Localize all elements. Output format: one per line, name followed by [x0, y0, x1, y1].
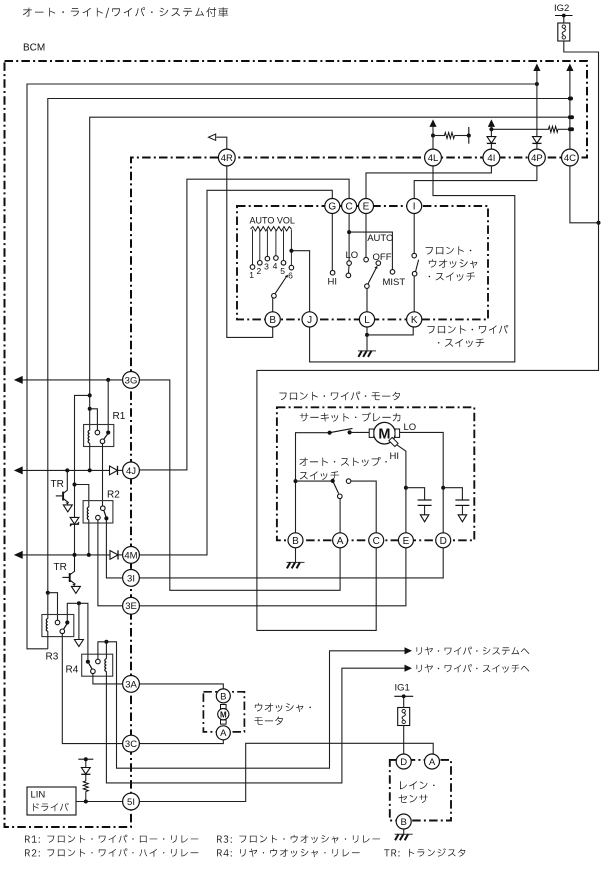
svg-text:C: C [345, 202, 352, 213]
arrow to rear wiper system [405, 647, 413, 654]
pin 4P [529, 149, 546, 166]
wire 4P internal [536, 71, 538, 150]
wire 4L to switch J [310, 166, 515, 362]
arrow to rear wiper switch [405, 665, 413, 672]
pin motor A [333, 533, 348, 548]
junction R2 coil feed [73, 483, 77, 487]
volume arm [272, 275, 288, 312]
svg-text:HI: HI [390, 451, 400, 462]
resistor AUTO VOL ladder [251, 227, 292, 231]
IG1 label [395, 683, 410, 694]
wire C to MIST contact [349, 232, 392, 270]
label TR [51, 479, 64, 490]
svg-text:A: A [337, 536, 344, 547]
junction R4 coil top [104, 640, 108, 644]
tap numbers [249, 261, 293, 281]
wire capacitor D branch [443, 488, 462, 500]
arrow 4C up [566, 64, 573, 72]
junction zener/4M [73, 553, 77, 557]
pin 4I [483, 149, 500, 166]
junction D capacitor [441, 486, 445, 490]
svg-text:3C: 3C [125, 739, 137, 750]
svg-text:L: L [364, 315, 370, 326]
wire 4I internal [490, 127, 492, 150]
wire K to ground [367, 327, 413, 335]
junction L2 branch [46, 591, 50, 595]
label circuit breaker [300, 412, 401, 422]
diode 4M [110, 550, 118, 559]
relay R3 contact [55, 620, 69, 633]
svg-text:3E: 3E [125, 601, 137, 612]
label LIN [31, 790, 69, 812]
label HI motor [390, 451, 400, 462]
svg-text:HI: HI [328, 276, 338, 287]
label R2 [107, 490, 120, 501]
wire 3C to washer A [140, 740, 224, 744]
motor M [369, 422, 399, 446]
svg-text:J: J [307, 315, 312, 326]
label MIST [383, 277, 406, 288]
wire 4C internal [569, 71, 571, 150]
junction IG2/4C [597, 221, 601, 225]
relay R4 contact [86, 659, 100, 673]
wire R3 coil bottom [47, 631, 49, 649]
pin J [302, 312, 317, 327]
wire 3G to motor A [140, 380, 341, 590]
svg-text:MIST: MIST [383, 277, 406, 288]
junction 4C/res [568, 127, 572, 131]
wire IG2 to right margin [564, 41, 599, 223]
pin 3E [123, 597, 140, 614]
wire R1 contact to 3G [107, 380, 109, 430]
ground rain sensor [395, 834, 413, 840]
wire motor HI to E [397, 445, 406, 533]
wire 4P to switch I [414, 166, 537, 199]
wire washer switch I [413, 214, 415, 254]
relay R2 contact [96, 506, 109, 521]
relay R4 coil [105, 659, 107, 672]
svg-text:6: 6 [288, 271, 293, 281]
contact HI [330, 270, 335, 275]
junction TR1 collector [65, 468, 69, 472]
pin I [407, 199, 422, 214]
svg-text:IG2: IG2 [554, 3, 569, 14]
svg-text:AUTO VOL: AUTO VOL [250, 216, 295, 226]
svg-text:4R: 4R [221, 153, 233, 164]
svg-text:M: M [220, 710, 227, 719]
label rear wiper system [417, 647, 530, 655]
relay R3 coil [46, 619, 48, 631]
svg-text:LO: LO [404, 422, 417, 433]
wire 4M to switch G [140, 190, 333, 555]
svg-text:B: B [220, 691, 226, 702]
wire R2 nc to 3E [98, 520, 123, 606]
svg-text:4P: 4P [531, 153, 543, 164]
label rear wiper switch [417, 664, 530, 673]
pin 4J [123, 462, 140, 479]
wire L1: 4P rail to R3 coil [27, 84, 537, 649]
label LO switch [346, 250, 359, 261]
wire L3: 4C rail to R1 [90, 117, 572, 430]
svg-text:4L: 4L [428, 153, 439, 164]
label HI switch [328, 276, 338, 287]
capacitor D [455, 500, 469, 522]
ground motor B [287, 562, 305, 568]
diode 5I branch [81, 759, 90, 774]
front wiper motor box [277, 407, 474, 540]
junction R1 coil top [88, 393, 92, 397]
pin 3I [123, 570, 140, 587]
washer motor box [203, 692, 244, 732]
relay R4 box [82, 654, 113, 676]
fuse IG2 [558, 16, 570, 42]
wire motor B to ground [295, 548, 297, 563]
svg-text:D: D [400, 757, 407, 768]
IG2 label [554, 3, 569, 14]
junction tap6 [289, 249, 293, 253]
wire 3E to motor E [140, 548, 406, 606]
pin rain A [425, 754, 440, 769]
svg-text:B: B [269, 315, 276, 326]
wire IG1 to rain sensor D [403, 726, 405, 755]
title text [23, 7, 228, 18]
svg-text:3I: 3I [127, 573, 135, 584]
zener diode across R2 coil [70, 517, 79, 555]
svg-text:IG1: IG1 [395, 683, 410, 694]
capacitor E [418, 500, 432, 522]
junction 4C/L3 [568, 115, 572, 119]
label TR (second) [54, 562, 67, 573]
arrow 4L up [429, 119, 436, 127]
circuit breaker [328, 428, 374, 434]
wire R1 contact feed [90, 409, 98, 430]
svg-text:TR: TR [51, 479, 64, 490]
label R1 [113, 411, 126, 422]
wire G to HI contact [331, 214, 333, 271]
junction 5I branch [84, 800, 88, 804]
wire L2: 4C rail to R3 [48, 99, 571, 593]
pin C [342, 199, 357, 214]
contact OFF [376, 261, 381, 266]
label BCM [23, 43, 45, 54]
wire auto-stop to motor A [339, 499, 341, 533]
junction L3/4C [570, 115, 574, 119]
wire 4C to IG2 [570, 166, 599, 223]
svg-text:4: 4 [273, 261, 278, 271]
wire C to LO contact [348, 214, 350, 261]
washer switch arm [416, 260, 419, 272]
wire 4M row [15, 552, 123, 558]
label AUTO VOL [250, 216, 295, 226]
wire IG2 down right margin to motor C [257, 223, 599, 631]
junction R2 coil/4M [87, 553, 91, 557]
arrow 4I up [488, 119, 495, 127]
svg-text:4M: 4M [124, 550, 137, 561]
svg-text:C: C [373, 536, 380, 547]
wire 4R to switch B [209, 134, 273, 337]
resistor 5I branch [83, 774, 88, 801]
svg-text:1: 1 [249, 270, 254, 280]
pin motor B [288, 533, 303, 548]
wire L2 branch to R3 contact [48, 593, 58, 620]
IG1 supply bar [394, 694, 413, 698]
svg-text:R3: R3 [46, 652, 59, 663]
junction L2/4C [569, 97, 573, 101]
svg-text:TR: TR [54, 562, 67, 573]
wire L to ground [366, 327, 368, 335]
svg-text:LO: LO [346, 250, 359, 261]
resistor 4I-4C [549, 126, 559, 132]
wire 4L branch lead [433, 135, 442, 137]
legend TR [384, 848, 465, 856]
relay R1 contact [95, 430, 110, 443]
continuation arrow TR1 emitter [63, 505, 72, 512]
wire 3G row [15, 377, 123, 383]
wire 4J to switch C [140, 179, 350, 470]
pin 3C [123, 735, 140, 752]
pin G [325, 199, 340, 214]
wiper mode arm [365, 266, 378, 312]
contact washer lower [412, 271, 417, 276]
junction 4L resistor branch [431, 134, 435, 138]
svg-text:5I: 5I [127, 797, 135, 808]
label LO motor [404, 422, 417, 433]
junction auto-stop B [294, 479, 298, 483]
wire 3I to motor D [140, 548, 444, 578]
svg-text:M: M [378, 426, 390, 442]
junction L1/4P [535, 82, 539, 86]
relay R2 coil [87, 507, 89, 519]
svg-text:4I: 4I [487, 153, 495, 164]
svg-text:B: B [401, 817, 407, 828]
wire 4I to switch E [366, 166, 491, 199]
junction R1 contact feed [88, 407, 92, 411]
wire R2 coil feed [75, 485, 89, 508]
junction 3G/R1 contact [106, 378, 110, 382]
pin rain D [396, 754, 411, 769]
svg-text:E: E [403, 536, 410, 547]
wire 3A to washer B [140, 684, 224, 689]
wire auto-stop to motor C [351, 481, 376, 533]
relay R2 box [83, 501, 113, 523]
label auto-stop switch [299, 457, 386, 480]
pin 4R [218, 149, 235, 166]
pin 4C [562, 149, 579, 166]
wire R3 arm to 3C [62, 634, 122, 744]
wire R1 coil to 4J row [89, 443, 91, 470]
continuation arrow R3 net [74, 640, 83, 647]
rain sensor box [390, 760, 451, 821]
junction R3-R4 net [77, 601, 81, 605]
legend row 1 left [25, 835, 198, 843]
terminal bar [78, 757, 93, 761]
svg-text:R4: R4 [66, 665, 79, 676]
svg-text:A: A [220, 728, 227, 739]
contact LO upper [347, 261, 352, 266]
svg-text:B: B [292, 536, 299, 547]
wire 4L internal [432, 127, 434, 150]
wire E to AUTO contact [365, 214, 367, 258]
wire R2 coil to 4M row [88, 520, 90, 555]
wire R1 arm to R2 contact [102, 444, 104, 506]
pin motor C [369, 533, 384, 548]
wire rain B to ground [403, 829, 405, 834]
legend row 2 right [217, 849, 360, 858]
pin motor D [436, 533, 451, 548]
fuse IG1 [398, 696, 410, 725]
junction E capacitor [404, 486, 408, 490]
wire R4 coil top lead [105, 642, 107, 659]
svg-text:K: K [411, 315, 418, 326]
pin K [407, 312, 422, 327]
front wiper switch box [237, 206, 488, 319]
stub terminal [467, 127, 471, 144]
wire motor B riser [296, 433, 330, 533]
pin motor E [398, 533, 413, 548]
wire 5I to rain sensor A [140, 743, 434, 801]
svg-text:A: A [429, 757, 436, 768]
svg-text:I: I [413, 202, 416, 213]
wire 4J row [15, 467, 123, 473]
label rain sensor [399, 781, 435, 803]
wire R4 arm to 3A [93, 674, 123, 684]
label AUTO [367, 233, 393, 244]
wire motor LO to D [400, 432, 444, 532]
contact LO lower [346, 265, 351, 277]
junction resistor row right [570, 127, 574, 131]
relay R1 coil [88, 430, 90, 443]
IG2 supply bar [555, 14, 573, 18]
junction resistor row left [489, 127, 493, 131]
LIN driver box [27, 787, 76, 815]
resistor 4L branch [445, 133, 455, 139]
wire L3 branch to R2 region [75, 395, 90, 517]
wire washer switch K [413, 276, 415, 312]
wire 5I row [76, 801, 123, 803]
wire 4I-4C resistor row [491, 128, 572, 130]
svg-text:E: E [363, 202, 370, 213]
relay R1 box [84, 425, 114, 447]
wire R4 coil to rear wiper switch [106, 668, 404, 783]
svg-text:R2: R2 [107, 490, 120, 501]
pin 3G [123, 372, 140, 389]
svg-text:LIN: LIN [31, 790, 46, 801]
diode 4P [532, 137, 541, 144]
svg-text:5: 5 [280, 266, 285, 276]
svg-text:BCM: BCM [23, 43, 45, 54]
svg-text:R1: R1 [113, 411, 126, 422]
svg-text:3A: 3A [125, 679, 137, 690]
contact MIST [390, 270, 395, 275]
pin washer B [216, 689, 230, 703]
wire R4 top net [98, 642, 405, 768]
wire stub to continuation [78, 603, 80, 639]
wire tap6 to J [291, 251, 309, 312]
label R3 [46, 652, 59, 663]
wire R2 arm to 3I [106, 521, 122, 578]
label OFF [373, 252, 392, 263]
pin 3A [123, 676, 140, 693]
relay R3 box [42, 615, 74, 637]
contact washer upper [412, 253, 417, 258]
diode 4I [487, 137, 496, 144]
pin 4M [123, 547, 140, 564]
pin washer A [216, 726, 230, 740]
transistor TR2 [62, 555, 75, 586]
wire 4L resistor branch [442, 135, 469, 137]
label R4 [66, 665, 79, 676]
diode 4J [110, 466, 118, 475]
wire L2 to R3 coil [47, 593, 49, 619]
pin rain B [396, 814, 411, 829]
continuation arrow TR2 emitter [71, 586, 80, 593]
svg-text:D: D [440, 536, 447, 547]
svg-text:G: G [328, 202, 336, 213]
pin 4L [425, 149, 442, 166]
svg-text:3: 3 [264, 262, 269, 272]
svg-text:2: 2 [257, 266, 262, 276]
label front washer switch [426, 246, 478, 281]
auto-stop switch [296, 479, 351, 499]
contact AUTO [364, 257, 369, 262]
wire R3 contact to R4 contact [67, 603, 88, 659]
ground wiper switch [358, 335, 376, 357]
washer motor M [218, 705, 229, 725]
svg-text:4C: 4C [564, 153, 576, 164]
pin 5I [123, 793, 140, 810]
pin B [265, 312, 280, 327]
svg-text:OFF: OFF [373, 252, 392, 263]
junction C branch [347, 230, 351, 234]
transistor TR1 [56, 470, 69, 504]
volume taps [250, 230, 294, 270]
svg-text:3G: 3G [125, 375, 138, 386]
label front wiper motor [279, 392, 400, 401]
legend row 1 right [217, 835, 380, 843]
legend row 2 left [25, 848, 198, 856]
junction L ground [365, 333, 369, 337]
svg-text:AUTO: AUTO [367, 233, 393, 244]
label washer motor [254, 703, 311, 725]
pin E [359, 199, 374, 214]
arrow 4P up [533, 64, 540, 72]
junction R1 coil [88, 468, 92, 472]
junction 4C/L2 [568, 97, 572, 101]
label front wiper switch [427, 325, 508, 347]
pin L [359, 312, 374, 327]
wire capacitor E branch [406, 488, 425, 500]
svg-text:4J: 4J [126, 466, 136, 477]
